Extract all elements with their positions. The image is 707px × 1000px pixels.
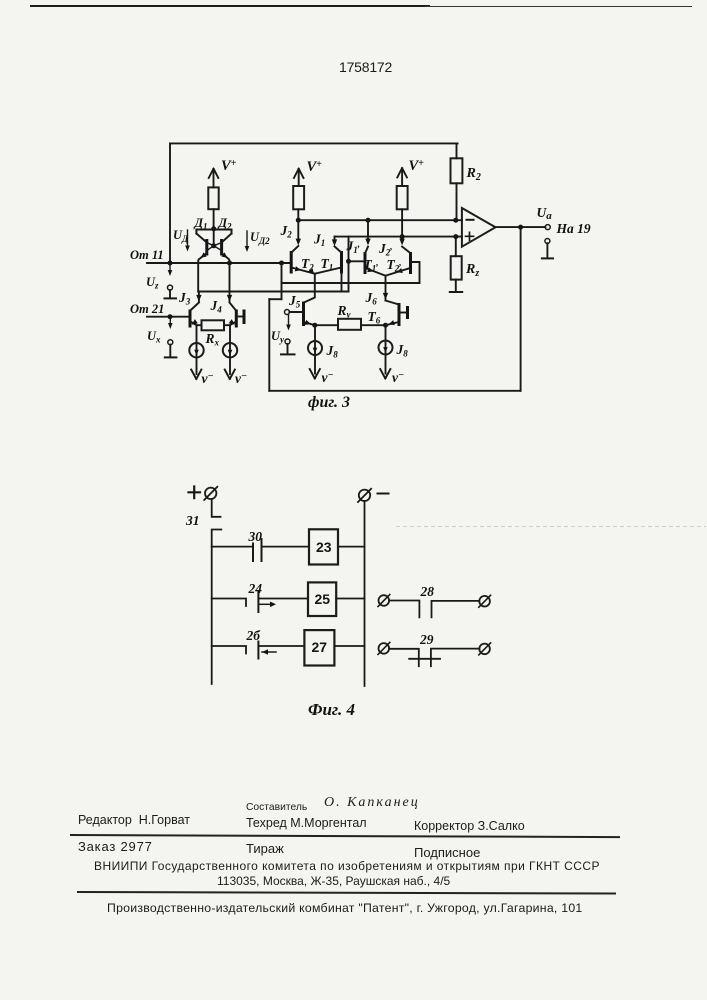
left rail bbox=[212, 530, 222, 685]
emitter rail through Ry bbox=[315, 324, 386, 326]
svg-text:J1: J1 bbox=[313, 232, 325, 249]
T2' collector bbox=[402, 247, 410, 253]
J5 base wire and Uy terminal circle bbox=[285, 310, 290, 315]
svg-text:V+: V+ bbox=[307, 159, 323, 175]
rung 1 wire to box 23 bbox=[262, 546, 310, 548]
Uy hanging arrow bbox=[288, 315, 290, 327]
svg-text:24: 24 bbox=[248, 581, 263, 596]
T2 emitter bbox=[291, 268, 314, 274]
contact 28 right terminal bbox=[479, 596, 490, 607]
svg-text:25: 25 bbox=[315, 591, 331, 607]
resistor R (V+ branch 2) body bbox=[293, 186, 304, 209]
svg-text:v−: v− bbox=[392, 370, 404, 385]
rung 3 wire to right rail bbox=[334, 645, 364, 647]
svg-text:29: 29 bbox=[419, 632, 434, 647]
output terminal circle Ua bbox=[545, 225, 550, 230]
svg-text:J5: J5 bbox=[288, 293, 301, 310]
wire: minus input bus bbox=[298, 219, 462, 221]
contact 29 right terminal bbox=[479, 644, 490, 655]
J5 emitter bbox=[304, 322, 315, 325]
J6 arrow to T6 bbox=[385, 276, 387, 301]
wire: top supply rail bbox=[170, 142, 458, 144]
svg-text:фиг. 3: фиг. 3 bbox=[308, 394, 350, 411]
T1' emitter bbox=[365, 268, 385, 276]
contact 29 crossbar bbox=[409, 658, 440, 660]
node Om11 bbox=[168, 261, 173, 266]
resistor R2 top body bbox=[451, 158, 463, 183]
op-amp minus bbox=[467, 219, 474, 221]
transistor T2 base bar bbox=[290, 251, 293, 274]
node cross-couple tap bbox=[279, 261, 284, 266]
svg-text:V+: V+ bbox=[221, 158, 237, 174]
resistor R (V+ branch 3) body bbox=[397, 186, 408, 209]
wire: R1 bottom to diode node bbox=[213, 209, 215, 229]
svg-text:J2: J2 bbox=[280, 223, 293, 240]
feedback box left edge bbox=[268, 299, 270, 391]
svg-text:T1,: T1, bbox=[364, 257, 379, 274]
wire: Om21 row bbox=[147, 316, 190, 318]
T2/T1 emitter node down to J5 bbox=[304, 274, 315, 303]
label U_D2 with arrow bbox=[246, 231, 248, 249]
T6 collector bbox=[386, 301, 399, 305]
box 23 bbox=[309, 529, 338, 564]
transistor J5 base bar bbox=[302, 302, 305, 327]
T6 base H terminal bbox=[399, 312, 407, 314]
J3 collector with arrow from L2 bbox=[190, 292, 199, 311]
wire L2 bias bus bbox=[198, 291, 348, 293]
wire: R2nd bottom to minus-node bbox=[297, 209, 299, 220]
svg-text:27: 27 bbox=[312, 639, 328, 655]
contact 26 bar bbox=[257, 642, 259, 659]
CS4 to V- bbox=[380, 369, 390, 379]
current source CS4 bbox=[385, 325, 387, 373]
V+ arrow 1 bbox=[213, 170, 215, 187]
rung 2 wire to right rail bbox=[336, 598, 364, 600]
T1' collector bbox=[365, 247, 368, 253]
rule 2 bbox=[77, 891, 616, 894]
T6 emitter bbox=[386, 322, 399, 325]
op-amp plus bbox=[466, 232, 474, 240]
wire: plus input bus bbox=[335, 236, 462, 238]
top border line bbox=[30, 5, 430, 7]
node D2 emitter junction bbox=[227, 261, 232, 266]
diode cross connections bbox=[207, 243, 222, 251]
D2 emitter to node bbox=[222, 253, 230, 263]
svg-text:R2: R2 bbox=[466, 166, 481, 183]
transistor J3 base bar bbox=[189, 310, 192, 328]
arrow J1' (into T1' collector) bbox=[367, 220, 369, 242]
svg-text:Ry: Ry bbox=[337, 303, 352, 320]
transistor T6 base bar bbox=[398, 303, 401, 326]
wire: Om11 row bbox=[147, 262, 291, 264]
svg-text:Rz: Rz bbox=[465, 262, 479, 279]
rung 3 wire to box 27 bbox=[258, 645, 304, 647]
CS3 to V- bbox=[310, 369, 320, 379]
Uz arrow terminal bbox=[169, 265, 171, 273]
transistor T1' base bar bbox=[364, 252, 367, 274]
svg-text:v−: v− bbox=[235, 371, 247, 386]
svg-text:Uz: Uz bbox=[146, 275, 159, 291]
op-amp U1 triangle bbox=[462, 208, 496, 247]
diode D2 base bar bbox=[220, 239, 223, 256]
left supply terminal circle with slash bbox=[205, 488, 216, 499]
feedback box right edge to output bbox=[520, 227, 522, 391]
contact 24 bar bbox=[257, 592, 259, 612]
node Om21 bbox=[168, 314, 173, 319]
minus terminal label bbox=[378, 493, 389, 495]
contact 28 wires and hooks bbox=[389, 601, 479, 618]
R2 stems bbox=[456, 143, 458, 220]
plus terminal label bbox=[189, 487, 201, 499]
svg-text:2б: 2б bbox=[246, 628, 262, 643]
svg-text:T2: T2 bbox=[301, 256, 314, 273]
V+ arrow 2 bbox=[298, 170, 300, 186]
svg-text:T6: T6 bbox=[368, 309, 381, 326]
Ux arrow terminal bbox=[169, 319, 171, 326]
scan artifact dotted line bbox=[396, 526, 706, 528]
footer text block bbox=[246, 802, 307, 813]
transistor T1 base bar bbox=[340, 251, 343, 274]
svg-text:28: 28 bbox=[420, 584, 435, 599]
current source CS1 bbox=[196, 325, 198, 374]
resistor Ry body bbox=[338, 319, 361, 330]
J3 emitter bbox=[190, 322, 196, 326]
T2' base wire to L1 bbox=[411, 262, 420, 283]
svg-text:T1: T1 bbox=[321, 256, 334, 273]
svg-text:На 19: На 19 bbox=[556, 221, 591, 236]
feedback box bottom edge bbox=[269, 390, 520, 392]
svg-text:J8: J8 bbox=[326, 343, 339, 360]
contact 29 wires and bars bbox=[389, 649, 479, 667]
transistor J4 base bar bbox=[235, 310, 238, 328]
wire: left vertical from rail to node Om11 bbox=[169, 143, 171, 263]
resistor R1 (V+ branch 1) body bbox=[208, 187, 218, 209]
output wire bbox=[496, 226, 546, 228]
svg-text:Rx: Rx bbox=[205, 331, 220, 348]
rule 1 bbox=[70, 834, 620, 838]
box 27 bbox=[304, 630, 334, 665]
V+ arrow 3 bbox=[401, 170, 403, 187]
diode D1 base bar bbox=[205, 239, 208, 256]
node: diode centre dot bbox=[211, 243, 216, 248]
rung 2 left wire with hook bbox=[212, 599, 246, 607]
J4 base H terminal bbox=[236, 316, 244, 318]
T2' emitter bbox=[386, 268, 411, 276]
svg-text:J8: J8 bbox=[396, 342, 409, 359]
J4 collector with arrow from node bbox=[230, 263, 237, 311]
contact 26 actuation arrow bbox=[262, 651, 276, 653]
svg-text:Ua: Ua bbox=[537, 205, 553, 222]
contact 24 actuation arrow bbox=[258, 603, 272, 605]
current source CS2 bbox=[229, 325, 231, 374]
svg-text:30: 30 bbox=[248, 529, 263, 544]
cross node and wire to T1' base bbox=[346, 259, 351, 264]
branch contact 29: left terminal bbox=[379, 643, 390, 654]
wire L1 left vertical bbox=[281, 263, 283, 299]
svg-text:Фиг. 4: Фиг. 4 bbox=[308, 700, 355, 719]
node dots on plus bus bbox=[400, 234, 405, 239]
rung 3 left wire with hook bbox=[212, 646, 246, 654]
wires Rx to emitters bbox=[197, 324, 231, 326]
box 25 bbox=[308, 582, 336, 616]
transistor T2' base bar bbox=[409, 252, 412, 274]
svg-text:J4: J4 bbox=[210, 298, 223, 315]
D1 emitter to wire bbox=[198, 253, 207, 292]
Rz stems and ground bbox=[455, 237, 457, 292]
diode pair centre vertical bbox=[213, 229, 215, 246]
svg-text:J2,: J2, bbox=[378, 241, 393, 258]
output ground terminal bbox=[545, 239, 550, 244]
T1 base drop to L2 bbox=[341, 274, 343, 292]
rung 1 wire to right rail bbox=[338, 546, 365, 548]
feedback box left jog bbox=[269, 298, 281, 300]
diode pair slanted sides bbox=[196, 234, 231, 243]
patent number 1758172 bbox=[339, 59, 392, 75]
node: R1/diode junction dot bbox=[211, 226, 216, 231]
svg-text:UД: UД bbox=[173, 228, 189, 244]
right rail bbox=[364, 501, 366, 686]
T2 collector bbox=[291, 246, 298, 253]
diode pair D1 D2 top bar bbox=[196, 230, 231, 234]
J4 emitter bbox=[230, 322, 236, 326]
svg-text:v−: v− bbox=[202, 371, 214, 386]
svg-text:Ux: Ux bbox=[147, 329, 161, 345]
current source CS3 bbox=[314, 325, 316, 373]
CS2 to V- bbox=[225, 370, 235, 380]
node dots on minus bus bbox=[296, 218, 301, 223]
wire L1 cross-couple bus bbox=[282, 282, 420, 284]
left rail stem and hooks bbox=[212, 499, 221, 517]
arrow J2' / R3 drop (into T2' collector) bbox=[401, 209, 403, 242]
svg-text:J3: J3 bbox=[178, 290, 191, 307]
resistor Rx body bbox=[202, 320, 225, 330]
T1 emitter bbox=[315, 268, 342, 274]
svg-text:Д1: Д1 bbox=[194, 216, 208, 232]
svg-text:v−: v− bbox=[322, 370, 334, 385]
CS1 to V- bbox=[191, 370, 201, 380]
svg-text:Uy: Uy bbox=[271, 329, 285, 345]
svg-text:31: 31 bbox=[185, 513, 200, 528]
arrow J1 (into T1 collector) bbox=[334, 237, 336, 243]
arrow J2 (into T2 collector) bbox=[297, 220, 299, 242]
rung 1 left wire bbox=[212, 546, 253, 548]
svg-text:23: 23 bbox=[316, 539, 332, 555]
contact 30 bars bbox=[253, 539, 262, 561]
svg-text:UД2: UД2 bbox=[250, 230, 270, 246]
svg-text:Д2: Д2 bbox=[218, 216, 233, 232]
svg-text:V+: V+ bbox=[409, 158, 425, 174]
rung 2 wire to box 25 bbox=[258, 598, 308, 600]
resistor Rz body bbox=[451, 256, 462, 279]
branch contact 28: left terminal bbox=[379, 595, 390, 606]
svg-text:От 21: От 21 bbox=[130, 302, 164, 316]
right supply terminal circle with slash bbox=[359, 490, 370, 501]
T1 collector bbox=[335, 246, 342, 252]
svg-text:От 11: От 11 bbox=[130, 248, 164, 262]
svg-text:J6: J6 bbox=[365, 290, 378, 307]
